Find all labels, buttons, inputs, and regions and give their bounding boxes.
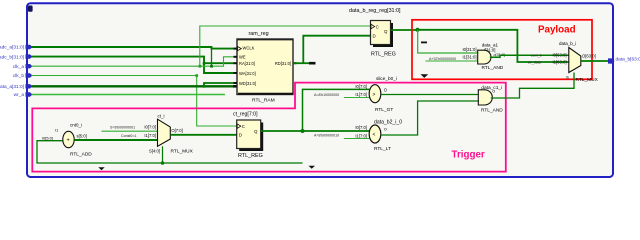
wire clk_a (32, 57, 235, 66)
svg-text:C: C (376, 24, 379, 29)
svg-text:Payload: Payload (538, 25, 576, 36)
gate U3 data_a1_i RTL_AND (478, 43, 505, 72)
svg-text:S[4:0]: S[4:0] (149, 148, 160, 153)
svg-text:WCLK: WCLK (243, 46, 255, 51)
module icon (28, 6, 33, 12)
wire data_a hidden end dash (233, 85, 238, 88)
register U2 data_b_reg RTL_REG (349, 8, 401, 57)
svg-text:A+32'h00000000: A+32'h00000000 (429, 57, 456, 61)
svg-text:RTL_LT: RTL_LT (374, 146, 391, 152)
svg-text:data_a[31:0]: data_a[31:0] (0, 84, 24, 90)
ground (421, 74, 429, 78)
svg-text:>: > (373, 92, 376, 98)
svg-text:RTL_AND: RTL_AND (481, 107, 503, 113)
sheet background (0, 0, 640, 179)
port clk_a (13, 64, 33, 70)
svg-text:ram_reg: ram_reg (249, 31, 269, 37)
svg-text:O: O (492, 90, 495, 94)
svg-text:I1[31:0]: I1[31:0] (463, 55, 477, 60)
register U7 ct_reg RTL_REG (233, 111, 263, 159)
wire RD up to D (303, 36, 370, 64)
port wr_a (14, 92, 33, 98)
pin WCLK (234, 46, 255, 51)
wire constant to LT I1 (344, 138, 369, 140)
wire adc_b to RA (204, 62, 234, 64)
svg-text:S=8'b00000001: S=8'b00000001 (110, 125, 135, 129)
net stub marker (421, 42, 427, 44)
svg-text:WA[31:0]: WA[31:0] (239, 71, 256, 76)
svg-text:D: D (373, 34, 376, 39)
svg-text:I0[7:0]: I0[7:0] (355, 84, 367, 89)
mux U4 data_b_i RTL_MUX (559, 41, 599, 83)
pin WE (234, 55, 246, 60)
pin RD[31:0] (275, 61, 297, 66)
svg-text:slice_b0_i: slice_b0_i (376, 76, 397, 81)
svg-text:ct_i: ct_i (158, 114, 165, 119)
node Q fanout (416, 28, 420, 32)
svg-text:cnt0_i: cnt0_i (70, 123, 82, 128)
svg-text:RTL_REG: RTL_REG (371, 51, 396, 57)
ram U1 RTL_RAM (237, 31, 293, 104)
wire clk_b (32, 76, 237, 127)
svg-text:RTL_MUX: RTL_MUX (171, 148, 194, 154)
pin RA[31:0] (234, 61, 255, 66)
svg-text:O[63:0]: O[63:0] (582, 54, 596, 59)
svg-text:I1[7:0]: I1[7:0] (144, 133, 156, 138)
svg-text:I1[63:0]: I1[63:0] (553, 60, 567, 65)
svg-text:clk_b: clk_b (13, 73, 25, 79)
svg-text:s[5:0]: s[5:0] (77, 134, 87, 139)
wire counter feedback (37, 141, 303, 163)
svg-text:clk_a: clk_a (13, 64, 25, 70)
svg-text:O: O (384, 126, 387, 131)
svg-text:I1[7:0]: I1[7:0] (355, 92, 367, 97)
svg-text:O[7:0]: O[7:0] (171, 128, 182, 133)
wire RD hidden end dash (309, 62, 316, 65)
svg-text:I0[7:0]: I0[7:0] (144, 124, 156, 129)
node clk_a junction (210, 65, 213, 68)
svg-text:data_b_reg_reg[31:0]: data_b_reg_reg[31:0] (349, 8, 401, 14)
svg-text:WD[31:0]: WD[31:0] (239, 81, 256, 86)
port adc_b[31:0] (0, 54, 32, 60)
ground marker 2 (309, 166, 316, 169)
gate U10 data_c1_i RTL_AND (478, 85, 503, 113)
svg-text:S: S (566, 75, 569, 80)
wire adder out to mux I0 (490, 55, 569, 57)
wire constant to mux I0 (102, 130, 158, 132)
svg-text:WE: WE (239, 55, 246, 60)
wire mux out to port (581, 60, 609, 62)
port data_b[63:0] (608, 58, 615, 63)
svg-text:C: C (242, 124, 245, 129)
wire trigger to mux S (491, 73, 574, 99)
svg-text:+: + (67, 138, 70, 144)
svg-text:RA[31:0]: RA[31:0] (239, 61, 255, 66)
wire ct to GT I0 (303, 89, 370, 131)
wire adc_b bus (32, 57, 235, 73)
payload group box (412, 20, 592, 80)
wire wr_a (32, 94, 225, 96)
svg-text:I0[31:0]: I0[31:0] (463, 47, 477, 52)
wire adder out to mux I1 (74, 139, 157, 141)
wire data_a to WD (204, 83, 234, 86)
svg-text:RD[31:0]: RD[31:0] (275, 61, 291, 66)
svg-text:adc_b[31:0]: adc_b[31:0] (0, 54, 24, 60)
svg-text:I0[7:0]: I0[7:0] (355, 125, 367, 130)
svg-text:RTL_AND: RTL_AND (482, 65, 504, 71)
svg-text:<: < (373, 132, 376, 138)
comparator U8 RTL_GT (369, 76, 397, 113)
svg-text:RTL_REG: RTL_REG (238, 153, 263, 159)
port data_a[31:0] (0, 84, 32, 90)
node ct fanout (301, 129, 305, 133)
svg-text:data_b_i: data_b_i (559, 41, 576, 46)
svg-text:ct_reg[7:0]: ct_reg[7:0] (233, 111, 258, 117)
wire constant to GT I1 (344, 97, 369, 99)
svg-text:I0[5:0]: I0[5:0] (42, 136, 53, 141)
wire LT out to and I1 (381, 101, 478, 135)
wire clk_a to reg clock (200, 26, 371, 66)
wire clk_a to WCLK (211, 49, 213, 67)
svg-text:sum_b: sum_b (531, 54, 542, 58)
ground marker 1 (98, 167, 104, 170)
wire data_a bus (32, 85, 234, 87)
node clk_b junction (195, 74, 198, 77)
wire RD to reg D (293, 62, 309, 64)
wire Q to mux I1 (418, 30, 569, 62)
svg-text:wr_a: wr_a (14, 92, 25, 98)
node S junction (161, 161, 165, 165)
trigger group box (32, 83, 506, 172)
svg-text:data_b2_i_0: data_b2_i_0 (374, 119, 402, 125)
svg-text:I1: I1 (55, 128, 58, 133)
wire reg Q out (391, 29, 418, 31)
svg-text:RTL_ADD: RTL_ADD (70, 151, 92, 157)
svg-text:adc_a[31:0]: adc_a[31:0] (0, 45, 24, 51)
wire mux out to reg D (170, 134, 236, 136)
svg-text:I0[63:0]: I0[63:0] (553, 53, 567, 58)
adder U5 cnt0_i RTL_ADD (63, 123, 93, 158)
comparator U9 RTL_LT (369, 119, 402, 151)
wire adc_a bus (32, 47, 235, 49)
svg-text:RTL_MUX: RTL_MUX (576, 77, 599, 83)
svg-text:RTL_GT: RTL_GT (375, 107, 393, 113)
pin WD[31:0] (234, 81, 257, 86)
mux U6 ct_i RTL_MUX (149, 114, 194, 155)
wire Q to adder I0 (418, 30, 478, 53)
wire ct_reg Q to comparators (261, 130, 370, 132)
svg-text:A=8'b00000010: A=8'b00000010 (314, 133, 339, 137)
svg-text:Const0=1: Const0=1 (121, 134, 136, 138)
node data_a junction (203, 85, 206, 88)
svg-text:Q: Q (254, 129, 258, 134)
svg-text:I1[7:0]: I1[7:0] (355, 133, 367, 138)
node clk_a junction 2 (199, 65, 202, 68)
port adc_a[31:0] (0, 45, 32, 51)
svg-text:D: D (239, 132, 242, 137)
svg-text:A=8'b10000000: A=8'b10000000 (314, 93, 339, 97)
svg-text:wr_data: wr_data (528, 61, 541, 65)
pin WA[31:0] (234, 71, 256, 76)
wire constant to adder I1 (426, 60, 478, 62)
top-level module border (27, 3, 613, 177)
wire GT out to and I0 (381, 94, 478, 96)
port clk_b (13, 73, 33, 79)
svg-text:Q: Q (384, 29, 388, 34)
svg-text:RTL_RAM: RTL_RAM (252, 97, 275, 103)
node adc_b junction (203, 62, 206, 65)
wire mux S from feedback (162, 146, 164, 163)
svg-text:Trigger: Trigger (452, 149, 485, 160)
svg-text:data_b[63:0]: data_b[63:0] (616, 57, 640, 63)
